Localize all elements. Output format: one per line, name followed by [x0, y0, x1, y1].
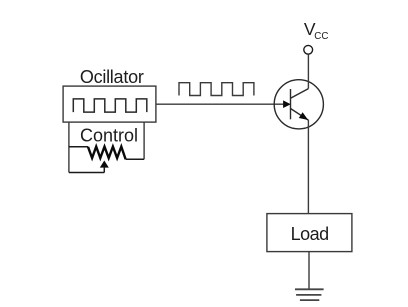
ground symbol: [295, 289, 324, 300]
load box: [267, 214, 352, 252]
wire: Vcc terminal to collector: [307, 54, 309, 88]
transistor Q1 emitter arrowhead: [299, 112, 308, 120]
potentiometer zigzag resistor: [88, 147, 126, 160]
wiper stem wire: [103, 167, 105, 173]
square wave signal between oscillator and transistor: [179, 83, 254, 96]
wire: load to ground: [308, 252, 310, 290]
svg-text:Load: Load: [291, 224, 329, 244]
transistor Q1 circle: [274, 80, 323, 129]
svg-text:Control: Control: [80, 126, 138, 146]
wire: oscillator output to transistor base: [156, 103, 283, 105]
potentiometer left lead wire: [69, 146, 88, 148]
base input arrowhead: [283, 100, 291, 108]
oscillator box: [63, 86, 156, 122]
svg-text:CC: CC: [314, 31, 328, 42]
square wave inside oscillator: [73, 99, 147, 112]
svg-text:Ocillator: Ocillator: [80, 67, 144, 87]
transistor Q1 base bar: [290, 89, 292, 119]
wiper feedback bottom wire: [69, 172, 104, 174]
Vcc terminal circle: [304, 45, 313, 54]
wire: emitter to load: [307, 120, 309, 214]
control block right side wire: [143, 122, 145, 159]
transistor Q1 emitter lead: [291, 109, 309, 121]
potentiometer right lead wire: [126, 158, 145, 160]
control block left side wire: [68, 122, 70, 172]
transistor Q1 collector lead: [291, 89, 309, 99]
potentiometer wiper arrow: [100, 161, 109, 168]
